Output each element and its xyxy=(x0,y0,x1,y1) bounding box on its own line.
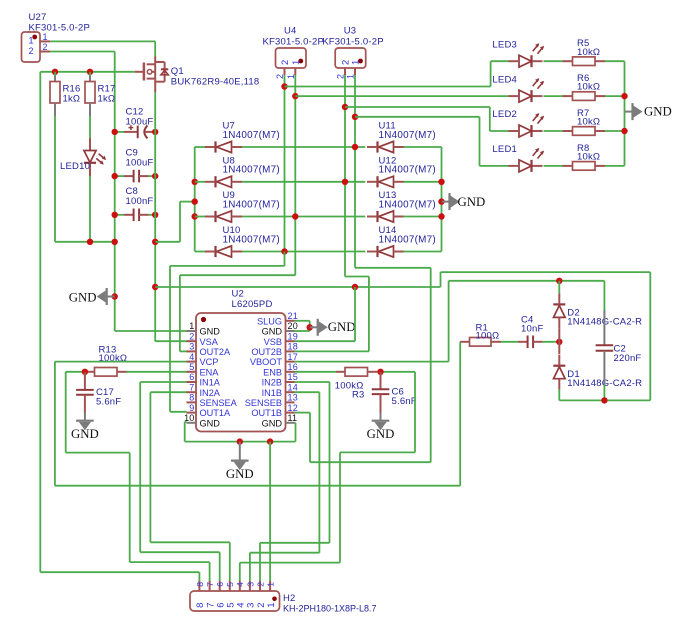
svg-text:220nF: 220nF xyxy=(614,353,642,364)
junction U3.2 LED2 tap xyxy=(342,104,348,110)
junction bus LED2 row xyxy=(621,128,627,134)
junction +V row xyxy=(152,239,158,245)
svg-text:LED10: LED10 xyxy=(60,161,90,172)
svg-text:3: 3 xyxy=(189,342,194,352)
svg-text:IN1B: IN1B xyxy=(262,388,282,398)
svg-text:5: 5 xyxy=(189,362,194,372)
wire pin11 riser xyxy=(295,423,297,442)
U2 pin 8 SENSEA xyxy=(187,393,238,408)
resistor R7 10k xyxy=(573,108,601,135)
wire R16 bottom to +12V row xyxy=(54,116,56,242)
svg-text:SLUG: SLUG xyxy=(257,316,282,326)
wire GND column to IC pin1 xyxy=(115,330,187,332)
wire row U10 left xyxy=(195,251,205,253)
junction C9 left xyxy=(112,173,118,179)
resistor R1 100 xyxy=(460,322,499,346)
junction U3.1 LED1 tap xyxy=(352,114,358,120)
svg-text:10kΩ: 10kΩ xyxy=(577,152,600,163)
wire R7 to bus xyxy=(595,130,605,132)
svg-text:GND: GND xyxy=(226,467,254,481)
svg-text:LED2: LED2 xyxy=(492,109,517,120)
wire LED4 to R6 xyxy=(544,95,563,97)
wire U3.2 / OUT2B column xyxy=(344,75,346,277)
capacitor C12 100uF polarized xyxy=(115,107,156,139)
wire OUT2A staircase to IC pin 3 xyxy=(180,274,295,276)
wire D2 bottom to pump node xyxy=(558,329,560,342)
svg-text:8: 8 xyxy=(195,582,205,587)
resistor R6 10k xyxy=(573,73,601,100)
junction anode bus U13 xyxy=(438,213,444,219)
svg-text:LED1: LED1 xyxy=(492,144,517,155)
U2 pin 18 OUT2B xyxy=(251,342,298,357)
svg-text:100uF: 100uF xyxy=(126,158,154,169)
wire +V row to diode cathode bus xyxy=(155,241,180,243)
junction U4.2 row U10/U14 xyxy=(281,248,287,254)
wire pin6 IN1A to H2 pin 6 xyxy=(140,381,186,383)
wire D2 top to VBOOT xyxy=(558,281,560,294)
ground below C6 xyxy=(367,421,395,442)
svg-text:12: 12 xyxy=(288,403,298,413)
svg-text:OUT2A: OUT2A xyxy=(200,347,232,357)
wire VSB riser from +V rail xyxy=(352,284,358,290)
U2 pin 12 OUT1B xyxy=(251,403,298,418)
svg-text:5.6nF: 5.6nF xyxy=(96,396,121,407)
resistor R3 100k xyxy=(335,368,368,401)
H2 pin 4 xyxy=(235,581,246,608)
junction U4.1 row U9 xyxy=(292,213,298,219)
capacitor C8 100nF xyxy=(115,186,156,221)
wire H2 pin1 riser xyxy=(269,442,271,581)
svg-text:6: 6 xyxy=(189,372,194,382)
wire R3 to C6 node xyxy=(368,371,378,373)
junction H2.1 riser xyxy=(267,438,273,444)
ground left of GND column xyxy=(69,288,118,305)
wire LED10 to bottom row xyxy=(89,176,91,242)
connector U4 KF301-5.0-2P xyxy=(263,26,325,69)
svg-text:KH-2PH180-1X8P-L8.7: KH-2PH180-1X8P-L8.7 xyxy=(283,604,377,614)
svg-text:17: 17 xyxy=(288,352,298,362)
svg-text:1: 1 xyxy=(266,582,276,587)
wire H2.6 stub up xyxy=(219,552,221,581)
U2 pin 10 GND xyxy=(184,413,220,428)
ground at U2 pin 20 xyxy=(307,319,356,336)
U2 pin 20 GND xyxy=(262,321,298,336)
wire U27.1 to Q1 source (VIN+) xyxy=(50,40,155,42)
LED LED10 pointing down xyxy=(60,138,106,176)
ground right of LED bus xyxy=(625,103,672,120)
svg-text:OUT1B: OUT1B xyxy=(251,408,282,418)
wire GND column vertical xyxy=(114,52,116,332)
svg-text:9: 9 xyxy=(189,403,194,413)
svg-text:1kΩ: 1kΩ xyxy=(63,94,81,105)
svg-text:2: 2 xyxy=(275,74,285,79)
wire row U9 left xyxy=(195,216,205,218)
junction cathode bus U9 xyxy=(192,213,198,219)
wire pin16 ENB to R3 xyxy=(295,371,337,373)
U2 pin 3 OUT2A xyxy=(187,342,232,357)
wire VBOOT from pin 17 xyxy=(295,361,449,363)
junction U3.2 row U8 xyxy=(342,179,348,185)
U4 pin 2 xyxy=(275,68,285,79)
svg-text:2: 2 xyxy=(43,42,48,52)
junction C12 left xyxy=(112,129,118,135)
wire row U13 right xyxy=(404,216,442,218)
svg-text:VSA: VSA xyxy=(200,337,219,347)
svg-text:GND: GND xyxy=(328,320,356,334)
svg-text:1N4007(M7): 1N4007(M7) xyxy=(379,199,436,210)
svg-text:4: 4 xyxy=(235,582,245,587)
wire LED3 to R5 xyxy=(544,60,563,62)
U2 pin 16 ENB xyxy=(263,362,298,377)
U27 pin 2 xyxy=(40,42,50,52)
diode D1 1N4148G-CA2-R xyxy=(553,355,642,390)
ground right of U11-U14 bus xyxy=(442,193,486,210)
U2 pin 4 VCP xyxy=(187,352,219,367)
wire LED4 feed xyxy=(295,95,508,97)
svg-text:GND: GND xyxy=(200,327,221,337)
wire D1 bottom to +V rail xyxy=(558,390,560,401)
junction LED10 bottom xyxy=(87,239,93,245)
svg-text:100uF: 100uF xyxy=(126,117,154,128)
wire row U11 right xyxy=(404,146,442,148)
wire LED2 to R7 xyxy=(544,130,563,132)
svg-text:1: 1 xyxy=(351,60,362,65)
wire U27.2 to GND column xyxy=(50,51,114,53)
svg-text:11: 11 xyxy=(288,413,298,423)
wire pump node to D1 xyxy=(558,342,560,354)
wire U4.1 / OUT2A column xyxy=(294,75,296,275)
svg-text:H2: H2 xyxy=(283,593,296,604)
ground below U2 xyxy=(226,442,254,481)
junction GND row at GND column xyxy=(112,239,118,245)
junction U4.1 LED4 tap xyxy=(292,93,298,99)
ground below C17 xyxy=(71,421,99,442)
svg-text:U3: U3 xyxy=(344,26,357,37)
svg-text:VSB: VSB xyxy=(264,337,282,347)
svg-text:10kΩ: 10kΩ xyxy=(577,82,600,93)
junction anode bus U12 xyxy=(438,179,444,185)
resistor R8 10k xyxy=(573,143,601,170)
svg-text:IN2B: IN2B xyxy=(262,378,282,388)
diode U10 1N4007(M7) xyxy=(205,225,280,257)
wire row U8 middle xyxy=(242,181,365,183)
svg-text:OUT2B: OUT2B xyxy=(251,347,282,357)
U2 pin 7 IN2A xyxy=(187,382,221,397)
svg-text:13: 13 xyxy=(288,393,298,403)
resistor R13 100k xyxy=(95,345,128,377)
svg-text:7: 7 xyxy=(189,382,194,392)
diode U7 1N4007(M7) xyxy=(205,121,280,153)
svg-text:100Ω: 100Ω xyxy=(476,330,500,341)
wire +V column to IC pin2 VSA xyxy=(155,340,186,342)
junction C8 right xyxy=(152,212,158,218)
svg-text:L6205PD: L6205PD xyxy=(232,299,273,310)
wire SLUG pin21 to GND pin20 xyxy=(295,321,310,331)
diode U13 1N4007(M7) xyxy=(367,190,436,222)
svg-text:10nF: 10nF xyxy=(521,324,543,335)
wire R13 left to C17 node xyxy=(85,371,95,373)
U2 pin 13 SENSEB xyxy=(245,393,298,408)
capacitor C2 220nF xyxy=(596,310,642,385)
wire ENB staircase to H2 pin 4 xyxy=(414,372,416,453)
svg-text:VCP: VCP xyxy=(200,357,219,367)
LED LED2 xyxy=(492,109,544,137)
wire R8 to bus xyxy=(595,165,605,167)
wire LED3 feed xyxy=(285,86,491,88)
wire H2.5 stub up xyxy=(229,542,231,581)
junction C12 right xyxy=(152,129,158,135)
U2 pin 2 VSA xyxy=(187,331,219,346)
wire U3.1 / OUT1B column xyxy=(354,75,356,268)
svg-text:GND: GND xyxy=(200,418,221,428)
wire LED1 feed xyxy=(355,116,480,118)
junction C17 node xyxy=(82,369,88,375)
svg-text:LED3: LED3 xyxy=(492,39,517,50)
wire R17 to LED10 xyxy=(89,116,91,138)
wire row U14 right xyxy=(404,251,442,253)
wire R6 to bus xyxy=(595,95,605,97)
wire H2.4 stub up xyxy=(239,563,241,581)
U2 pin 21 SLUG xyxy=(257,311,298,326)
junction anode bus GND tap xyxy=(438,198,444,204)
svg-text:1: 1 xyxy=(29,36,34,46)
svg-text:LED4: LED4 xyxy=(492,74,517,85)
connector H2 KH-2PH180-1X8P-L8.7 xyxy=(190,591,377,614)
H2 pin 7 xyxy=(205,581,216,608)
svg-text:18: 18 xyxy=(288,342,298,352)
svg-text:IN2A: IN2A xyxy=(200,388,221,398)
wire H2.2 stub up xyxy=(259,543,261,581)
svg-text:ENB: ENB xyxy=(263,367,282,377)
LED LED3 xyxy=(492,39,544,67)
capacitor C4 10nF xyxy=(518,314,543,348)
capacitor C9 100uF xyxy=(115,148,156,183)
svg-text:1N4007(M7): 1N4007(M7) xyxy=(379,130,436,141)
wire +V bottom rail xyxy=(559,399,650,401)
junction C9 right xyxy=(152,173,158,179)
wire OUT2B staircase to IC pin 18 xyxy=(345,276,369,278)
wire H2.7 stub up xyxy=(209,562,211,581)
wire row U7 left xyxy=(195,146,205,148)
svg-text:GND: GND xyxy=(644,105,672,119)
connector U27 KF301-5.0-2P xyxy=(22,12,91,62)
U2 pin 11 GND xyxy=(262,413,298,428)
wire H2.8 stub up xyxy=(198,572,200,581)
svg-text:2: 2 xyxy=(336,74,346,79)
svg-text:IN1A: IN1A xyxy=(200,378,221,388)
junction U4.2 LED3 tap xyxy=(281,83,287,89)
junction C2 bottom xyxy=(601,397,607,403)
svg-text:1: 1 xyxy=(189,321,194,331)
wire +V long rail xyxy=(155,286,440,288)
U3 pin 1 xyxy=(346,68,356,79)
diode D2 1N4148G-CA2-R xyxy=(553,293,642,328)
svg-text:20: 20 xyxy=(288,321,298,331)
H2 pin 3 xyxy=(245,581,256,608)
junction cathode bus +V tap xyxy=(192,198,198,204)
wire pin10 to below-IC gnd xyxy=(185,421,187,423)
U2 pin 14 IN1B xyxy=(262,382,298,397)
resistor R16 1k xyxy=(50,72,81,116)
diode U11 1N4007(M7) xyxy=(367,121,436,153)
wire LED2 feed xyxy=(345,106,490,108)
svg-text:100nF: 100nF xyxy=(126,196,154,207)
svg-text:1: 1 xyxy=(266,603,277,608)
H2 pin 1 xyxy=(266,581,277,608)
svg-text:GND: GND xyxy=(367,427,395,441)
svg-text:5.6nF: 5.6nF xyxy=(392,396,417,407)
svg-text:1: 1 xyxy=(43,32,48,42)
svg-text:1N4007(M7): 1N4007(M7) xyxy=(379,234,436,245)
svg-text:16: 16 xyxy=(288,362,298,372)
svg-text:1N4007(M7): 1N4007(M7) xyxy=(223,130,280,141)
junction below-IC gnd symbol xyxy=(237,438,243,444)
diode U12 1N4007(M7) xyxy=(367,155,436,187)
svg-text:15: 15 xyxy=(288,372,298,382)
resistor R5 10k xyxy=(573,38,601,65)
svg-text:KF301-5.0-2P: KF301-5.0-2P xyxy=(322,37,384,48)
wire OUT1A staircase to IC pin 9 xyxy=(284,252,286,266)
wire H2.3 stub up xyxy=(249,553,251,581)
U2 pin 9 OUT1A xyxy=(187,403,232,418)
svg-text:1N4007(M7): 1N4007(M7) xyxy=(223,165,280,176)
svg-text:GND: GND xyxy=(262,418,283,428)
svg-text:GND: GND xyxy=(69,290,97,304)
svg-text:VBOOT: VBOOT xyxy=(250,357,283,367)
svg-text:1N4007(M7): 1N4007(M7) xyxy=(223,199,280,210)
junction R16 top xyxy=(52,69,58,75)
H2 pin 8 xyxy=(195,581,206,608)
U2 pin 15 IN2B xyxy=(262,372,298,387)
svg-text:1kΩ: 1kΩ xyxy=(98,94,116,105)
diode U8 1N4007(M7) xyxy=(205,155,280,187)
svg-text:R3: R3 xyxy=(352,390,365,401)
U2 pin 17 VBOOT xyxy=(250,352,298,367)
junction VBOOT at D2 xyxy=(556,278,562,284)
svg-text:SENSEA: SENSEA xyxy=(200,398,238,408)
wire R1 to C4 xyxy=(491,341,501,343)
LED LED1 xyxy=(492,144,544,172)
svg-text:10kΩ: 10kΩ xyxy=(577,47,600,58)
H2 pin 6 xyxy=(215,581,226,608)
svg-text:2: 2 xyxy=(280,60,291,65)
wire left bus down to H2 pin 8 xyxy=(39,72,41,572)
wire pin5 ENA to R13 xyxy=(127,371,187,373)
wire VCP long bus xyxy=(55,485,460,487)
svg-text:6: 6 xyxy=(215,582,225,587)
U2 pin 19 VSB xyxy=(264,331,298,346)
wire row U12 right xyxy=(404,181,442,183)
svg-text:2: 2 xyxy=(189,331,194,341)
svg-text:GND: GND xyxy=(262,327,283,337)
junction U3.1 row U7 xyxy=(352,144,358,150)
svg-text:4: 4 xyxy=(189,352,194,362)
resistor R17 1k xyxy=(85,72,116,116)
wire U7-U10 cathode bus xyxy=(194,147,196,252)
wire row U9 middle xyxy=(242,216,365,218)
svg-text:1: 1 xyxy=(291,60,302,65)
U3 pin 2 xyxy=(336,68,346,79)
transistor Q1 BUK762R9-40E,118 P-MOSFET xyxy=(135,57,260,93)
svg-text:2: 2 xyxy=(255,582,265,587)
wire gate rail (H2.8 net) xyxy=(40,71,134,73)
svg-text:GND: GND xyxy=(71,427,99,441)
junction R17 top xyxy=(87,69,93,75)
svg-text:19: 19 xyxy=(288,331,298,341)
wire OUT1B staircase to IC pin 12 xyxy=(355,267,431,269)
U2 pin 6 IN1A xyxy=(187,372,221,387)
svg-text:14: 14 xyxy=(288,382,298,392)
svg-text:KF301-5.0-2P: KF301-5.0-2P xyxy=(263,37,325,48)
junction cathode bus U8 xyxy=(192,179,198,185)
junction C8 left xyxy=(112,212,118,218)
svg-text:1N4007(M7): 1N4007(M7) xyxy=(223,234,280,245)
svg-text:2: 2 xyxy=(29,46,34,56)
wire row U7 middle xyxy=(242,146,365,148)
wire pin7 IN2A to H2 pin 5 xyxy=(150,391,186,393)
svg-text:U27: U27 xyxy=(29,12,47,23)
U4 pin 1 xyxy=(286,68,296,79)
U27 pin 1 xyxy=(40,32,50,42)
U2 pin 5 ENA xyxy=(187,362,220,377)
wire ENA staircase to H2 pin 7 xyxy=(65,372,67,453)
diode U14 1N4007(M7) xyxy=(367,225,436,257)
H2 pin 2 xyxy=(255,581,266,608)
svg-text:10kΩ: 10kΩ xyxy=(577,117,600,128)
wire pin4 VCP to left bus xyxy=(55,361,187,363)
wire LED1 to R8 xyxy=(544,165,563,167)
wire C4 to pump node xyxy=(543,341,560,343)
svg-text:7: 7 xyxy=(205,582,215,587)
svg-text:3: 3 xyxy=(245,582,255,587)
wire row U10 middle xyxy=(242,251,365,253)
svg-text:BUK762R9-40E,118: BUK762R9-40E,118 xyxy=(171,76,260,87)
wire Q1 drain / +V column xyxy=(154,92,156,341)
H2 pin 5 xyxy=(225,581,236,608)
LED LED4 xyxy=(492,74,544,102)
connector U3 KF301-5.0-2P xyxy=(322,26,384,69)
svg-text:5: 5 xyxy=(225,582,235,587)
wire U4.2 / OUT1A column xyxy=(284,75,286,252)
svg-text:8: 8 xyxy=(189,393,194,403)
svg-text:U2: U2 xyxy=(232,289,245,300)
U2 pin 1 GND xyxy=(187,321,221,336)
svg-text:OUT1A: OUT1A xyxy=(200,408,232,418)
svg-text:SENSEB: SENSEB xyxy=(245,398,282,408)
wire C2 top feed xyxy=(603,281,605,310)
wire R5 to bus xyxy=(595,60,605,62)
diode U9 1N4007(M7) xyxy=(205,190,280,222)
svg-text:ENA: ENA xyxy=(200,367,220,377)
junction C6 node xyxy=(377,369,383,375)
wire LED gnd bus xyxy=(624,61,626,166)
wire row U8 left xyxy=(195,181,205,183)
svg-text:1N4007(M7): 1N4007(M7) xyxy=(379,165,436,176)
junction +V to long rail xyxy=(152,284,158,290)
wire C2 bottom to +V rail xyxy=(603,385,605,400)
wire pin15 IN2B to H2 pin 2 xyxy=(295,381,330,383)
svg-text:21: 21 xyxy=(288,311,298,321)
svg-text:GND: GND xyxy=(458,195,486,209)
svg-text:1: 1 xyxy=(346,74,356,79)
capacitor C17 5.6nF xyxy=(76,372,121,421)
junction pump node xyxy=(556,339,562,345)
junction bus LED4 row xyxy=(621,93,627,99)
svg-text:U4: U4 xyxy=(284,26,297,37)
wire U11-U14 anode bus xyxy=(441,147,443,252)
wire pin14 IN1B to H2 pin 3 xyxy=(295,391,320,393)
op-amp U2 L6205PD driver IC body xyxy=(196,289,286,432)
